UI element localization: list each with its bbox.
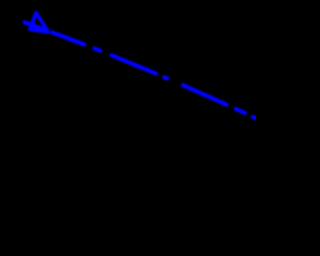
wire dash segment 2 bbox=[53, 32, 85, 44]
wire dash segment 4 bbox=[183, 85, 227, 104]
wire dash segment 1 bbox=[25, 22, 45, 29]
triangle marker bbox=[30, 13, 49, 32]
wire dot 2 bbox=[164, 77, 167, 78]
wire dash segment 5 bbox=[253, 117, 259, 120]
wire dot 1 bbox=[94, 48, 100, 50]
wire dot 3 bbox=[236, 109, 245, 113]
wire dash segment 3 bbox=[112, 55, 157, 73]
